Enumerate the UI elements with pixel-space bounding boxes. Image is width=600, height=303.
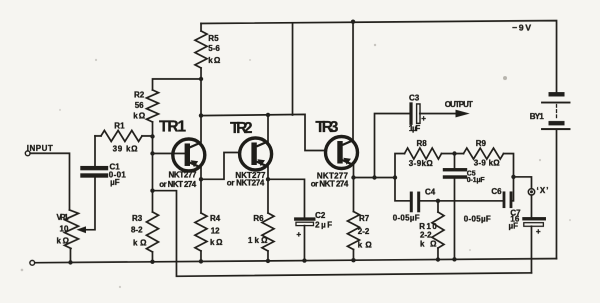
svg-text:kΩ: kΩ [208,56,221,65]
wire R7 bottom [352,250,354,261]
scan artifacts [21,44,571,288]
output arrow [456,110,470,118]
svg-text:0-1µF: 0-1µF [467,177,486,184]
wire VR1 bottom [69,248,71,262]
svg-text:1kΩ: 1kΩ [248,236,268,245]
svg-text:−9V: −9V [512,23,531,33]
node TR2 collector [266,113,270,117]
svg-text:or NKT274: or NKT274 [227,178,265,187]
svg-text:TR3: TR3 [315,119,338,136]
svg-text:+: + [536,227,541,236]
battery BY1 cell lines [542,102,570,129]
svg-text:56: 56 [135,101,144,110]
resistor R3 [146,212,158,252]
svg-text:R4: R4 [210,214,221,223]
svg-text:5-6: 5-6 [208,44,220,53]
wire R8 to R9 [441,153,463,155]
wire battery bottom to ground rail [555,130,557,259]
resistor R4 [195,213,207,251]
svg-text:k Ω: k Ω [133,238,147,247]
node C4/R10/C6 [436,199,440,203]
svg-text:INPUT: INPUT [27,144,53,153]
ground dots [68,260,72,264]
potentiometer VR1 wiper arrow [76,226,86,233]
wire R5 top lead [200,23,202,31]
wire TR1 base [152,152,186,154]
svg-text:kΩ: kΩ [133,111,146,120]
svg-text:3-9 kΩ: 3-9 kΩ [474,159,501,168]
svg-text:C4: C4 [425,187,436,196]
wire R4 bottom [200,251,202,261]
wire TR1 emitter / R4 column [200,167,202,213]
capacitor C6 [504,193,511,207]
input terminal [25,151,30,156]
svg-text:C2: C2 [315,211,326,220]
svg-text:R8: R8 [417,139,428,148]
battery BY1 cell bars [549,92,565,125]
wire C7 bottom to feedback rail [530,226,532,273]
wire TR1 emitter to TR2 base [201,152,239,179]
svg-text:10: 10 [59,224,68,233]
ground rail [35,258,557,262]
svg-text:2-2: 2-2 [358,227,370,236]
svg-text:µF: µF [508,221,518,230]
capacitor C1 [82,168,106,175]
svg-text:TR1: TR1 [159,119,186,136]
wire TR3 collector [352,22,354,141]
node X terminal center [530,190,533,193]
svg-text:2µF: 2µF [315,221,332,230]
svg-text:+: + [296,230,301,239]
wire rail drop [292,23,294,115]
resistor R10 [432,212,444,248]
capacitor C7 plate1 [524,217,544,220]
svg-text:VR1: VR1 [56,213,69,222]
wire collector line to TR3 base [201,114,326,150]
node C3 tap [372,175,376,179]
wire C5 bottom [453,179,455,260]
wire R1 leads [95,135,152,137]
svg-text:kΩ: kΩ [210,238,223,247]
svg-text:BY1: BY1 [530,112,545,121]
node TR3 emitter [351,175,355,179]
node TR1 emitter [199,177,203,181]
wire C1 top lead [94,136,96,166]
capacitor C4 [411,193,418,211]
battery dashed link [556,105,558,120]
svg-text:kΩ: kΩ [56,236,69,245]
resistor R1 [101,130,142,141]
capacitor C2 plate2 [296,222,314,225]
svg-text:or NKT 274: or NKT 274 [159,180,197,189]
svg-text:0-05µF: 0-05µF [393,214,420,223]
wire TR2 emitter to C2 [268,179,305,217]
svg-text:R9: R9 [476,139,487,148]
node TR2 emitter [266,177,270,181]
svg-text:C6: C6 [491,187,502,196]
svg-text:2-2: 2-2 [420,231,432,240]
resistor R2 [147,90,159,122]
svg-text:R5: R5 [208,34,219,43]
wire C3 to output arrow [420,113,458,115]
ground-left terminal [30,260,35,265]
wire C1 bottom to VR1 wiper [85,178,95,230]
wire R5 bottom to TR1 collector [200,68,202,142]
wire C5 top lead [453,154,455,169]
wire C4 to node [420,200,502,202]
wire R9 right riser to C6 [503,154,513,201]
resistor R6 [262,213,274,251]
transistor TR3 [325,137,357,169]
feedback bottom rail [152,191,531,277]
svg-text:R7: R7 [359,214,370,223]
svg-text:8-2: 8-2 [131,226,143,235]
wire C3 left lead [374,114,409,178]
svg-text:µF: µF [110,178,120,187]
svg-text:‘X’: ‘X’ [536,186,548,195]
wire X branch [513,177,531,189]
resistor R8 [404,148,441,159]
svg-text:1µF: 1µF [409,124,421,133]
node TR1 base [150,151,154,155]
potentiometer VR1 [64,210,78,249]
wire R6 bottom [267,251,269,261]
terminal X [528,189,534,195]
node TR3 collector rail [351,20,355,24]
svg-text:OUTPUT: OUTPUT [445,100,473,109]
node network left [393,175,397,179]
svg-text:R6: R6 [253,214,264,223]
resistor R9 [463,148,503,159]
svg-text:NKT277: NKT277 [168,170,197,179]
svg-text:R3: R3 [132,214,143,223]
transistor TR1 [173,139,205,171]
wire R2 bottom / TR1 base column [151,122,153,212]
capacitor C7 plate2 [524,223,544,227]
svg-text:C3: C3 [409,93,420,102]
wire R3 bottom [151,252,153,262]
svg-text:TR2: TR2 [230,120,253,137]
node R8/R9/C5 [452,151,456,155]
svg-text:39 kΩ: 39 kΩ [113,145,139,154]
svg-text:+: + [421,114,426,123]
svg-text:R1: R1 [114,121,125,130]
wire TR2 emitter / R6 column [267,166,269,213]
top -9V rail [201,20,557,91]
node feedback tap [150,188,154,192]
resistor R5 [195,31,207,68]
node R5/R2 [199,77,203,81]
svg-text:R2: R2 [134,91,145,100]
resistor R7 [347,212,359,250]
wire R10 leads [437,201,439,259]
svg-text:or NKT 274: or NKT 274 [311,180,349,189]
wire input to VR1 [30,153,69,210]
wire TR2 collector [267,115,269,142]
capacitor C3 plate2 [417,104,420,123]
wire X to C7 [530,195,532,217]
capacitor C3 plate1 [409,104,412,123]
svg-text:R10: R10 [419,222,437,231]
transistor TR2 [240,138,272,170]
svg-text:12: 12 [211,226,220,235]
node X tap [511,175,515,179]
svg-text:0-05µF: 0-05µF [464,214,491,223]
wire network left riser [395,154,410,201]
wire node R5/R2 link [153,79,202,90]
svg-text:kΩ: kΩ [358,240,373,249]
node TR1 collector [199,113,203,117]
wire TR3 emitter to network [353,177,394,179]
capacitor C2 plate1 [296,217,314,220]
wire C2 bottom [303,226,305,261]
wire TR3 emitter / R7 column [352,165,354,212]
capacitor C5 [444,170,465,177]
node R1/R2 [150,134,154,138]
svg-text:3-9kΩ: 3-9kΩ [409,159,434,168]
